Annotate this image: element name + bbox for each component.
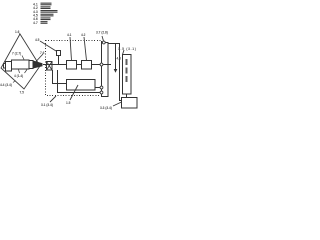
svg-text:3.3 (3.4): 3.3 (3.4) <box>100 106 112 110</box>
diamond frame <box>1 34 40 89</box>
wire tall box to bottom box <box>126 94 128 98</box>
svg-text:4.4 (3.4): 4.4 (3.4) <box>0 83 12 87</box>
label 7 (2.7) <box>12 52 21 56</box>
wide block <box>67 80 96 91</box>
block A <box>67 61 77 70</box>
svg-text:4.7: 4.7 <box>33 21 38 25</box>
label 3.7 (2.8) <box>96 31 108 35</box>
label 3.1 (3.4) <box>41 103 53 107</box>
dashed enclosure <box>46 41 102 96</box>
svg-text:3.1 (3.4): 3.1 (3.4) <box>41 103 53 107</box>
svg-text:7 (2.7): 7 (2.7) <box>12 52 21 56</box>
svg-text:7.5: 7.5 <box>20 91 25 95</box>
wire down-left from shutter <box>53 70 67 84</box>
label 1.5 leader <box>70 85 78 100</box>
label 3.5 (3.1) <box>118 47 137 51</box>
label 4.1 <box>67 33 72 37</box>
wire main horizontal <box>43 64 111 66</box>
label 1.6 leader <box>19 34 20 35</box>
svg-text:1.5: 1.5 <box>66 101 71 105</box>
arrow down <box>115 44 117 70</box>
label 4.5 <box>35 38 40 42</box>
label 3.5 (3.1) leader <box>123 50 125 55</box>
svg-text:3.7 (2.8): 3.7 (2.8) <box>96 31 108 35</box>
svg-text:4 (1.4): 4 (1.4) <box>14 74 23 78</box>
svg-text:4.2: 4.2 <box>81 33 86 37</box>
svg-text:4.5: 4.5 <box>35 38 40 42</box>
label 3.3 (3.4) leader <box>113 102 122 106</box>
label 4 (1.4) <box>14 74 23 78</box>
label 4.1 leader <box>70 37 72 61</box>
label 4.2 <box>81 33 86 37</box>
label 1.5 <box>66 101 71 105</box>
cylinder knob <box>4 64 6 69</box>
svg-text:4.1: 4.1 <box>67 33 72 37</box>
legend list top-left <box>33 2 58 25</box>
arrow head <box>114 69 118 73</box>
wire bus to right column <box>108 44 122 101</box>
label 7 (2.7) leader <box>22 56 24 60</box>
label 7.6 <box>40 51 45 55</box>
bus node mid <box>100 63 103 66</box>
cylinder flange <box>6 62 12 72</box>
label 4.5 leader <box>40 41 56 51</box>
label 4 (1.4) leader <box>19 70 28 74</box>
label 4.2 leader <box>84 37 87 61</box>
block B <box>82 61 92 70</box>
cylinder cone <box>33 61 43 69</box>
svg-text:4.8: 4.8 <box>117 57 122 61</box>
wire mirror stem <box>58 56 60 65</box>
bottom box <box>122 98 138 109</box>
shutter box <box>47 62 53 71</box>
bus node lower2 <box>100 91 103 94</box>
shutter cross <box>47 62 53 71</box>
label 7.6 leader <box>36 54 43 62</box>
label 4.8 <box>117 57 122 61</box>
wire down to bus <box>58 70 102 93</box>
label 3.1 (3.4) leader <box>50 96 56 102</box>
bus node top <box>102 41 105 44</box>
label 3.3 (3.4) <box>100 106 112 110</box>
tall box <box>123 55 132 95</box>
svg-text:3.5 (3.1): 3.5 (3.1) <box>118 47 137 51</box>
mirror square <box>57 51 61 56</box>
wire wide block to bus <box>95 87 102 89</box>
terminal bus <box>102 43 109 97</box>
svg-text:1.6: 1.6 <box>15 30 20 34</box>
bus node lower1 <box>100 86 103 89</box>
tall box text <box>126 59 128 82</box>
label 7.5 <box>20 91 25 95</box>
label 1.6 <box>15 30 20 34</box>
label 3.7 (2.8) leader <box>102 36 104 41</box>
cylinder body <box>12 60 30 69</box>
label 4.4 (3.4) <box>13 81 16 83</box>
svg-text:7.6: 7.6 <box>40 51 45 55</box>
